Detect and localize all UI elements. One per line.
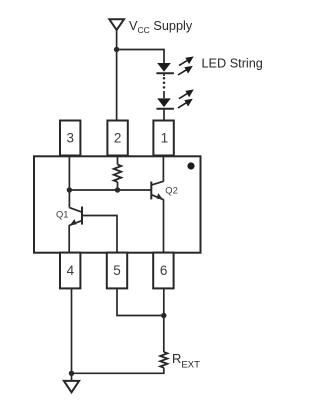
svg-text:4: 4 <box>67 263 75 278</box>
svg-text:Q1: Q1 <box>56 209 69 220</box>
svg-text:Q2: Q2 <box>165 185 178 196</box>
svg-text:1: 1 <box>161 131 169 146</box>
svg-text:REXT: REXT <box>172 351 200 371</box>
svg-text:2: 2 <box>114 131 122 146</box>
svg-text:6: 6 <box>160 263 168 278</box>
svg-text:LED String: LED String <box>202 57 263 71</box>
svg-text:5: 5 <box>113 263 121 278</box>
svg-text:3: 3 <box>66 131 74 146</box>
svg-text:VCC Supply: VCC Supply <box>129 19 193 35</box>
